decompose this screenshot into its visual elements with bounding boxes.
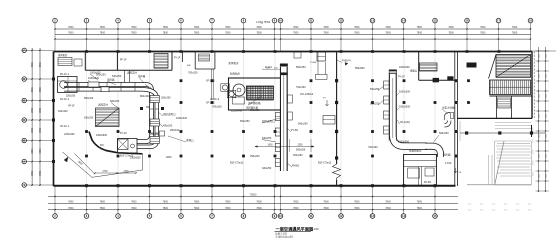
- svg-text:400x250: 400x250: [163, 125, 173, 128]
- svg-text:P-B1F4: P-B1F4: [342, 60, 351, 63]
- svg-text:7800: 7800: [131, 32, 137, 35]
- svg-text:KF-1F-1: KF-1F-1: [60, 98, 70, 101]
- svg-text:详见大样图: 详见大样图: [442, 106, 455, 110]
- svg-text:7800: 7800: [385, 201, 391, 204]
- svg-text:450: 450: [516, 210, 519, 212]
- svg-text:560x250: 560x250: [298, 123, 308, 126]
- svg-text:7800: 7800: [480, 26, 486, 29]
- svg-text:PF-B1: PF-B1: [424, 181, 432, 184]
- svg-text:7800: 7800: [256, 26, 262, 29]
- svg-text:800x320: 800x320: [140, 95, 150, 98]
- svg-text:450: 450: [492, 210, 495, 212]
- svg-text:7800: 7800: [194, 207, 200, 210]
- svg-text:3800: 3800: [32, 148, 34, 154]
- svg-text:630x250: 630x250: [112, 75, 122, 78]
- svg-text:320x250: 320x250: [161, 97, 171, 100]
- svg-text:450: 450: [468, 210, 471, 212]
- svg-text:排烟口: 排烟口: [410, 69, 418, 73]
- svg-text:7800: 7800: [68, 207, 74, 210]
- svg-text:3800: 3800: [40, 148, 42, 154]
- svg-text:450: 450: [468, 204, 471, 206]
- svg-text:400x320: 400x320: [58, 110, 68, 113]
- svg-text:7800: 7800: [194, 26, 200, 29]
- svg-text:450: 450: [480, 210, 483, 212]
- svg-text:800x320: 800x320: [84, 97, 94, 100]
- svg-text:7800: 7800: [323, 26, 329, 29]
- svg-text:900x600: 900x600: [250, 109, 260, 112]
- svg-text:B1F (72m2): B1F (72m2): [230, 162, 243, 165]
- svg-text:1500x500: 1500x500: [130, 157, 141, 160]
- svg-text:3800: 3800: [40, 61, 42, 67]
- svg-text:1250x400: 1250x400: [231, 110, 243, 113]
- svg-text:450: 450: [516, 204, 519, 206]
- svg-text:1000x500: 1000x500: [399, 66, 410, 69]
- svg-text:1000x320: 1000x320: [88, 77, 100, 80]
- svg-text:1600x600: 1600x600: [96, 134, 108, 137]
- svg-text:1000x500: 1000x500: [399, 106, 411, 109]
- svg-text:7800: 7800: [163, 32, 169, 35]
- svg-text:500x250: 500x250: [370, 103, 380, 106]
- svg-text:250x200: 250x200: [250, 155, 260, 158]
- svg-text:7800: 7800: [480, 32, 486, 35]
- svg-text:630x250: 630x250: [262, 137, 272, 140]
- svg-text:450: 450: [528, 204, 531, 206]
- svg-text:消声器: 消声器: [107, 78, 115, 82]
- svg-text:7800: 7800: [163, 26, 169, 29]
- svg-text:XF-1(2F): XF-1(2F): [400, 121, 410, 124]
- svg-text:630x250: 630x250: [84, 117, 94, 120]
- svg-text:B: B: [23, 139, 25, 143]
- svg-text:1:100: 1:100: [312, 227, 319, 231]
- svg-text:7800: 7800: [293, 201, 299, 204]
- svg-text:450: 450: [492, 204, 495, 206]
- svg-text:A: A: [23, 160, 25, 164]
- svg-text:7800: 7800: [354, 201, 360, 204]
- svg-text:7800: 7800: [323, 207, 329, 210]
- svg-text:450: 450: [504, 204, 507, 206]
- svg-text:7800: 7800: [293, 207, 299, 210]
- svg-text:2750: 2750: [102, 171, 108, 173]
- svg-text:7800: 7800: [293, 26, 299, 29]
- svg-text:7800: 7800: [354, 32, 360, 35]
- svg-text:7800: 7800: [225, 32, 231, 35]
- svg-text:75500: 75500: [250, 194, 257, 197]
- svg-text:800: 800: [146, 106, 151, 109]
- svg-text:7800: 7800: [417, 201, 423, 204]
- svg-text:7800: 7800: [323, 201, 329, 204]
- svg-text:7800: 7800: [385, 207, 391, 210]
- svg-text:送风百叶: 送风百叶: [98, 103, 109, 107]
- svg-text:700x320: 700x320: [188, 72, 198, 75]
- svg-text:FM: FM: [100, 144, 103, 147]
- svg-text:FM-B1: FM-B1: [292, 165, 300, 168]
- svg-text:1000x320: 1000x320: [176, 117, 188, 120]
- svg-text:7800: 7800: [194, 32, 200, 35]
- svg-text:3800: 3800: [40, 86, 42, 92]
- svg-text:加压送风口: 加压送风口: [163, 112, 176, 116]
- svg-text:PF-1F-1: PF-1F-1: [60, 73, 70, 76]
- svg-text:7800: 7800: [512, 26, 518, 29]
- svg-text:比例 1:100: 比例 1:100: [276, 232, 288, 236]
- svg-text:7800: 7800: [354, 26, 360, 29]
- svg-text:3800: 3800: [40, 170, 42, 176]
- svg-text:PY-B1: PY-B1: [291, 129, 299, 132]
- svg-text:B1F (72m2): B1F (72m2): [318, 162, 331, 165]
- svg-text:送风百叶: 送风百叶: [127, 71, 138, 75]
- svg-text:450: 450: [504, 210, 507, 212]
- svg-text:7800: 7800: [68, 32, 74, 35]
- svg-text:500x250: 500x250: [439, 132, 449, 135]
- svg-text:500x250: 500x250: [240, 120, 250, 123]
- svg-text:720x320: 720x320: [368, 146, 378, 149]
- svg-text:D: D: [23, 99, 25, 103]
- svg-text:PY-1F: PY-1F: [120, 132, 127, 135]
- svg-text:1:100: 1:100: [445, 162, 452, 165]
- svg-text:400x250: 400x250: [293, 154, 303, 157]
- svg-text:500x250: 500x250: [370, 88, 380, 91]
- svg-text:3800: 3800: [40, 107, 42, 113]
- svg-text:PY-B4: PY-B4: [310, 62, 317, 64]
- svg-text:1250x400: 1250x400: [64, 133, 75, 136]
- svg-text:7800: 7800: [385, 32, 391, 35]
- svg-text:C: C: [23, 118, 25, 122]
- svg-text:560x250: 560x250: [296, 66, 306, 69]
- svg-text:消声静压箱: 消声静压箱: [246, 105, 259, 109]
- svg-text:7800: 7800: [323, 32, 329, 35]
- svg-text:7800: 7800: [354, 207, 360, 210]
- svg-text:7800: 7800: [256, 32, 262, 35]
- svg-text:7800: 7800: [225, 201, 231, 204]
- svg-text:250x200: 250x200: [150, 133, 160, 136]
- svg-text:新风机房: 新风机房: [229, 61, 240, 65]
- svg-text:250x160: 250x160: [170, 129, 180, 132]
- svg-text:7800: 7800: [68, 201, 74, 204]
- svg-text:7800: 7800: [163, 201, 169, 204]
- svg-text:7800: 7800: [194, 201, 200, 204]
- svg-text:1-18轴 75500: 1-18轴 75500: [256, 20, 271, 24]
- svg-text:新风机房: 新风机房: [230, 72, 241, 76]
- svg-text:7800: 7800: [417, 207, 423, 210]
- svg-text:E: E: [23, 77, 25, 81]
- svg-text:7800: 7800: [512, 32, 518, 35]
- svg-text:7800: 7800: [293, 32, 299, 35]
- svg-text:7800: 7800: [225, 26, 231, 29]
- svg-text:7800: 7800: [100, 32, 106, 35]
- svg-text:7800: 7800: [131, 201, 137, 204]
- svg-text:7800: 7800: [256, 201, 262, 204]
- svg-text:XF-1F: XF-1F: [68, 105, 75, 108]
- svg-text:7800: 7800: [225, 207, 231, 210]
- svg-text:7800: 7800: [163, 207, 169, 210]
- svg-text:7800: 7800: [417, 26, 423, 29]
- svg-text:1000x500: 1000x500: [399, 91, 411, 94]
- svg-text:7800: 7800: [448, 26, 454, 29]
- svg-text:3800: 3800: [32, 107, 34, 113]
- svg-text:7800: 7800: [100, 207, 106, 210]
- svg-text:1000x500: 1000x500: [398, 140, 410, 143]
- svg-text:320x250: 320x250: [66, 95, 76, 98]
- svg-text:XF-1F-2: XF-1F-2: [206, 102, 215, 105]
- svg-text:3800: 3800: [32, 127, 34, 133]
- svg-text:500x250: 500x250: [296, 149, 306, 152]
- svg-text:3800: 3800: [32, 86, 34, 92]
- svg-text:XF-1F-1: XF-1F-1: [206, 80, 215, 83]
- svg-text:7800: 7800: [68, 26, 74, 29]
- svg-text:7800: 7800: [256, 207, 262, 210]
- svg-text:1500: 1500: [297, 145, 303, 147]
- svg-text:450: 450: [480, 204, 483, 206]
- svg-text:J1F-1250x2: J1F-1250x2: [300, 93, 314, 96]
- svg-text:7800: 7800: [385, 26, 391, 29]
- svg-text:7800: 7800: [131, 26, 137, 29]
- svg-text:7800: 7800: [448, 32, 454, 35]
- svg-text:消声静压箱: 消声静压箱: [248, 101, 261, 105]
- svg-text:700x320: 700x320: [296, 86, 306, 89]
- svg-text:XF-1F-1: XF-1F-1: [60, 125, 70, 128]
- svg-text:PY-1F: PY-1F: [174, 58, 181, 60]
- svg-text:消声器: 消声器: [443, 153, 451, 157]
- svg-text:320x250: 320x250: [262, 167, 272, 170]
- svg-text:3200: 3200: [166, 156, 172, 159]
- svg-text:7800: 7800: [417, 32, 423, 35]
- svg-text:排烟口: 排烟口: [186, 138, 194, 142]
- svg-text:2750: 2750: [123, 171, 129, 173]
- svg-text:PY-1F: PY-1F: [398, 76, 405, 79]
- svg-text:7800: 7800: [100, 201, 106, 204]
- svg-text:PF-1F: PF-1F: [120, 60, 127, 62]
- svg-text:7800: 7800: [100, 26, 106, 29]
- svg-text:1000x320: 1000x320: [90, 72, 101, 75]
- svg-text:3800: 3800: [32, 170, 34, 176]
- svg-text:3800: 3800: [40, 127, 42, 133]
- svg-text:500x250: 500x250: [110, 100, 120, 103]
- svg-text:3800: 3800: [32, 61, 34, 67]
- svg-text:450: 450: [528, 210, 531, 212]
- svg-text:7800: 7800: [131, 207, 137, 210]
- svg-text:560x800: 560x800: [355, 67, 365, 70]
- svg-text:排烟风机房: 排烟风机房: [409, 149, 422, 153]
- svg-text:700x320: 700x320: [212, 106, 222, 109]
- svg-text:1600: 1600: [267, 145, 273, 147]
